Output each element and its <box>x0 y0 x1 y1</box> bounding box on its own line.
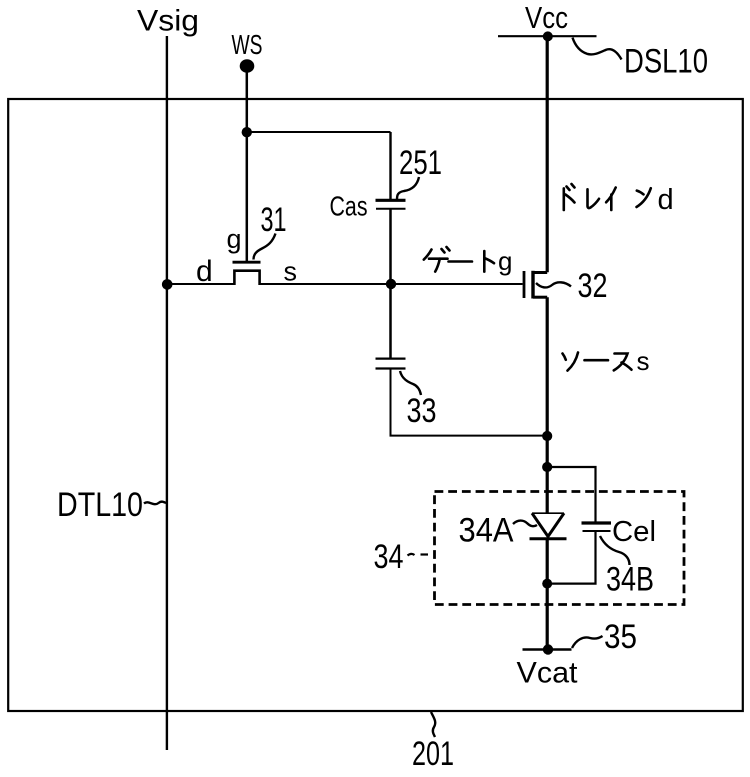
junction dot on WS branch <box>242 127 252 137</box>
leader squiggle to 31 <box>254 234 276 260</box>
leader squiggle to DSL10 <box>573 38 622 60</box>
transistor 32 gate bar <box>523 271 526 298</box>
transistor 32 channel bar <box>531 271 534 299</box>
junction dot at cap33 return <box>542 431 552 441</box>
svg-text:201: 201 <box>412 735 454 773</box>
leader dashes to 34 <box>408 554 415 556</box>
diode 34A triangle top edge <box>532 512 564 514</box>
leader tilde to 34A <box>513 521 537 527</box>
svg-text:s: s <box>284 257 298 287</box>
svg-text:d: d <box>658 184 674 216</box>
svg-text:34A: 34A <box>459 512 514 550</box>
leader squiggle to 35 <box>572 636 603 648</box>
svg-text:g: g <box>227 224 242 254</box>
diode 34A cathode bar <box>530 537 567 540</box>
leader tilde to 32 <box>536 282 571 287</box>
svg-text:g: g <box>498 246 512 276</box>
svg-text:34: 34 <box>374 538 404 576</box>
svg-text:251: 251 <box>399 144 442 182</box>
dashed box 34 <box>435 492 685 605</box>
svg-text:DSL10: DSL10 <box>624 43 708 81</box>
wire Cel branch top <box>547 467 595 522</box>
capacitor 33 bottom plate <box>376 367 406 369</box>
label gate-g katakana <box>424 247 494 272</box>
row wire right segment (s side to gate of 32) <box>259 283 523 285</box>
wire capacitor branch vertical middle <box>389 209 392 358</box>
capacitor 251 top plate <box>376 199 406 202</box>
capacitor Cel top plate <box>582 521 612 524</box>
leader tilde to DTL10 <box>144 502 166 505</box>
svg-text:DTL10: DTL10 <box>57 486 143 524</box>
wire capacitor branch vertical upper <box>389 132 391 199</box>
leader squiggle to 201 <box>431 712 435 737</box>
capacitor Cel bottom plate <box>583 530 611 532</box>
transistor 31 gate bar <box>233 261 261 264</box>
Vcat terminal bar <box>523 648 572 650</box>
junction dot at Cel branch bottom <box>542 579 552 589</box>
leader squiggle to 33 <box>400 371 421 395</box>
Vcc terminal dot <box>543 31 553 41</box>
svg-text:d: d <box>196 255 213 288</box>
Vcat terminal dot <box>543 644 553 654</box>
wire Cel branch bottom <box>547 531 595 584</box>
wire main source line <box>546 297 549 513</box>
svg-text:Vcat: Vcat <box>517 657 579 690</box>
svg-text:Vcc: Vcc <box>525 0 568 35</box>
svg-text:s: s <box>637 346 650 376</box>
wire capacitor branch bottom return <box>391 369 548 436</box>
capacitor 33 top plate <box>376 358 406 360</box>
transistor 31 body (hat) <box>234 271 259 285</box>
label drain-d katakana <box>564 184 651 210</box>
wire WS vertical <box>246 66 249 261</box>
wire cathode line <box>546 539 549 650</box>
svg-text:Vsig: Vsig <box>137 5 199 38</box>
label source-s katakana <box>563 353 632 371</box>
wire Vsig vertical line DTL10 <box>166 36 168 750</box>
svg-text:31: 31 <box>261 201 287 239</box>
svg-text:32: 32 <box>578 267 608 305</box>
outer pixel boundary box 201 <box>8 99 743 711</box>
svg-text:Cel: Cel <box>612 516 656 548</box>
junction dot at Cel branch <box>542 462 552 472</box>
svg-text:33: 33 <box>407 392 437 430</box>
svg-text:WS: WS <box>232 29 263 60</box>
junction dot node g <box>386 279 396 289</box>
WS terminal dot <box>240 59 255 73</box>
svg-text:Cas: Cas <box>330 191 368 222</box>
leader squiggle to 34B <box>600 536 630 565</box>
svg-text:35: 35 <box>604 618 637 656</box>
wire main drain line <box>546 37 549 273</box>
row wire left segment (d side) <box>167 283 235 285</box>
transistor 32 drain arm <box>533 271 547 274</box>
diode 34A triangle sides <box>532 513 564 536</box>
junction dot on Vsig <box>162 279 173 290</box>
leader squiggle to 251 <box>397 177 419 199</box>
svg-text:34B: 34B <box>606 561 654 599</box>
transistor 32 source arm <box>533 296 547 299</box>
wire WS branch horizontal <box>247 131 391 133</box>
Vcc terminal bar <box>498 35 597 37</box>
capacitor 251 bottom plate <box>376 208 406 210</box>
